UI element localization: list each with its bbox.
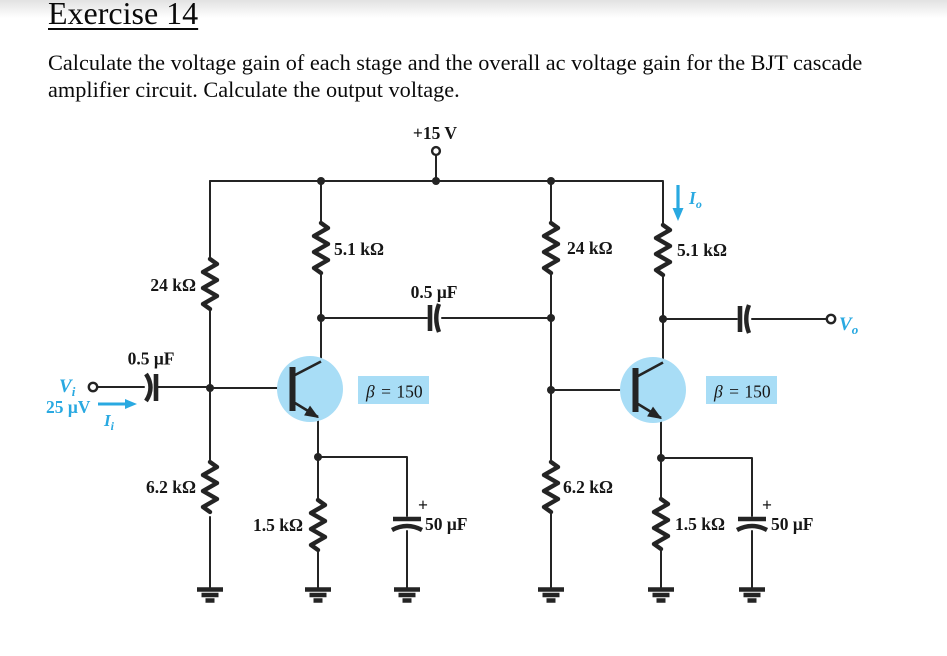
ground stage1 emitter resistor [305, 590, 331, 601]
capacitor output [740, 305, 749, 333]
ground stage2 divider [538, 590, 564, 601]
junction rail / stage2 divider [547, 177, 555, 185]
node E2 (Q2 emitter) [657, 454, 665, 462]
wire 1.5k stage2 to ground [660, 549, 662, 588]
wire Q2 base [551, 389, 633, 391]
capacitor 50uF stage2 [737, 519, 767, 530]
svg-text:6.2 kΩ: 6.2 kΩ [563, 477, 613, 497]
node C2 (Q2 collector) [659, 315, 667, 323]
resistor 5.1 kOhm stage1 [314, 223, 328, 273]
svg-text:25 μV: 25 μV [46, 397, 91, 417]
wire emitter tee to bypass cap stage1 [318, 457, 407, 516]
resistor 24 kOhm stage1 [203, 259, 217, 309]
wire input to coupling cap [97, 386, 144, 388]
junction rail / +15V supply [432, 177, 440, 185]
wire Q1 collector [320, 318, 322, 361]
beta label box Q2 [706, 376, 777, 404]
wire 5.1k stage2 top lead [662, 182, 664, 225]
wire left column bottom (6.2k to ground) [209, 517, 211, 588]
resistor 5.1 kOhm stage2 [656, 225, 670, 275]
output current arrow Io [673, 185, 684, 221]
svg-text:50 μF: 50 μF [425, 514, 468, 534]
wire Q2 emitter down [660, 417, 662, 458]
svg-text:24 kΩ: 24 kΩ [567, 238, 613, 258]
wire output cap right segment [752, 318, 827, 320]
node B2 (Q2 base) [547, 386, 555, 394]
svg-text:1.5 kΩ: 1.5 kΩ [675, 514, 725, 534]
output terminal Vo [827, 315, 835, 323]
resistor 6.2 kOhm stage2 [544, 462, 558, 512]
ground stage1 divider [197, 590, 223, 601]
svg-text:50 μF: 50 μF [771, 514, 814, 534]
ground stage2 emitter resistor [648, 590, 674, 601]
transistor Q2 [620, 357, 686, 423]
wire interstage right segment [442, 317, 551, 319]
capacitor 0.5uF input [146, 374, 156, 401]
svg-text:+: + [418, 495, 428, 515]
node B1 (Q1 base) [206, 384, 214, 392]
wire emitter tee to bypass cap stage2 [661, 458, 752, 516]
wire output cap left segment [663, 318, 737, 320]
ground stage2 bypass cap [739, 590, 765, 601]
svg-text:β = 150: β = 150 [365, 382, 423, 402]
resistor 1.5 kOhm stage1 [311, 500, 325, 550]
svg-text:1.5 kΩ: 1.5 kΩ [253, 515, 303, 535]
wire Q2 emitter node to 1.5k [660, 458, 662, 499]
svg-text:5.1 kΩ: 5.1 kΩ [334, 239, 384, 259]
wire 5.1k stage2 bottom to collector node [662, 275, 664, 319]
wire coupling cap to base node [158, 386, 210, 388]
wire bypass cap stage1 to ground [406, 531, 408, 588]
capacitor 50uF stage1 [392, 519, 422, 530]
svg-text:Io: Io [688, 188, 702, 211]
wire left column top (rail to R 24k) [209, 181, 211, 259]
wire interstage left segment [321, 317, 427, 319]
ground stage1 bypass cap [394, 590, 420, 601]
wire Q1 emitter node to 1.5k [317, 457, 319, 500]
svg-text:Vo: Vo [839, 314, 859, 337]
svg-text:Ii: Ii [103, 411, 115, 433]
wire 5.1k stage1 top lead [320, 181, 322, 223]
input current arrow Ii [98, 399, 137, 409]
wire stage2 divider column bottom to ground [550, 514, 552, 588]
wire bypass cap stage2 to ground [751, 531, 753, 588]
wire 1.5k stage1 to ground [317, 550, 319, 588]
power +15V terminal stem [435, 155, 437, 181]
resistor 24 kOhm stage2 [544, 223, 558, 273]
wire left column mid (24k to 6.2k through base node) [209, 309, 211, 462]
svg-text:6.2 kΩ: 6.2 kΩ [146, 477, 196, 497]
resistor 1.5 kOhm stage2 [654, 499, 668, 549]
svg-text:0.5 μF: 0.5 μF [128, 349, 175, 369]
svg-text:+: + [762, 495, 772, 515]
beta label box Q1 [358, 376, 429, 404]
svg-text:+15 V: +15 V [413, 123, 458, 143]
junction rail / RC1 5.1k [317, 177, 325, 185]
node E1 (Q1 emitter) [314, 453, 322, 461]
power +15V terminal circle [432, 147, 440, 155]
svg-text:0.5 μF: 0.5 μF [411, 282, 458, 302]
wire Q1 base [210, 387, 290, 389]
wire top supply rail [210, 180, 663, 182]
input terminal Vi [89, 383, 97, 391]
svg-text:Vi: Vi [59, 376, 76, 399]
wire stage2 divider column top [550, 181, 552, 223]
resistor 6.2 kOhm stage1 [203, 462, 217, 512]
capacitor 0.5uF interstage [430, 304, 439, 332]
wire stage2 divider column mid [550, 273, 552, 462]
junction interstage cap / stage2 divider [547, 314, 555, 322]
wire Q1 emitter down [317, 417, 319, 457]
svg-text:β = 150: β = 150 [713, 382, 771, 402]
svg-text:24 kΩ: 24 kΩ [150, 275, 196, 295]
svg-text:5.1 kΩ: 5.1 kΩ [677, 240, 727, 260]
wire 5.1k stage1 bottom to collector node [320, 273, 322, 318]
transistor Q1 [277, 356, 343, 422]
wire Q2 collector [662, 319, 664, 362]
node C1 (Q1 collector) [317, 314, 325, 322]
